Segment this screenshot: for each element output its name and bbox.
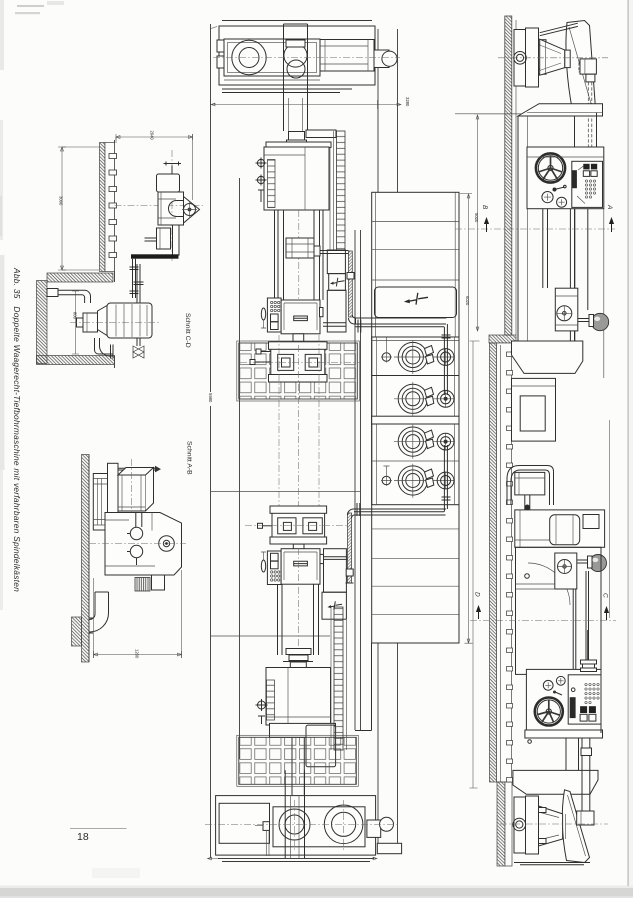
headstock1 spindle rails [543,209,575,341]
panel black buttons 2x2 [583,164,589,170]
A-B casting slot [136,513,142,527]
top foot cone [540,39,565,75]
mid clamp block [286,238,314,258]
main pulley [232,40,266,74]
headstock2 base plate [270,723,336,737]
panel dark slot [572,170,577,188]
unit1 right flange [320,308,324,317]
pendant buttons [271,571,280,581]
ladder rack top [337,131,346,250]
C-D pump motor [107,303,152,338]
column cap [286,40,305,47]
pipe1 fitting [347,273,354,280]
machine bed long bar right edge [397,29,399,853]
C-D vertical pipe stub [145,238,157,241]
fixture1 clamp left [278,354,294,370]
bottom pulley small [279,809,310,840]
clamp solid box [580,59,596,74]
A-B wall footing hatch [72,617,82,646]
chuck stack [581,660,597,664]
svg-text:3000: 3000 [59,196,64,206]
spindle clamp block [577,811,594,825]
bottom dim line [208,857,378,860]
stem lower [566,738,579,770]
bed rail extension below cabinet [355,643,372,731]
end knob [374,50,389,68]
pendant handwheel [261,560,265,572]
mid dim line 3280 [211,100,401,109]
C-D floor line [114,140,116,368]
svg-text:800: 800 [73,312,78,320]
pipe2 riser to gauge [442,445,451,512]
C-D pipe drop 2 [137,264,140,346]
cabinet lower shelf lines [372,529,459,615]
headstock1 hand cranks [256,158,267,203]
carriage1 handwheel [557,306,572,321]
headstock2 base plate [525,730,603,738]
A-B main casting [105,513,182,576]
A-B wall hatch [82,455,90,663]
svg-text:3280: 3280 [405,97,410,107]
lightning bolt lower [330,601,342,610]
fixture1 top plate [269,342,328,350]
headstock2 black buttons [580,706,587,713]
gauge row 1 [381,338,454,375]
end knob bulb [382,51,397,66]
foot centerline [498,57,608,59]
carriage 1 [555,288,578,331]
foot2 plate B [526,796,539,854]
fixture1 bottom plate [269,375,328,383]
headstock1 dial circles [542,192,553,203]
right bar lower end block [377,843,401,853]
fixture centerlines down [279,335,319,506]
top-left scan dashes [17,5,44,7]
A-B box centerline [131,459,133,517]
wall hatch lower [497,782,505,866]
foot2 plate A [514,797,526,853]
pipe1 elbow and run [349,315,447,324]
spindle centerline [298,210,300,345]
spindle stem 2 [293,544,304,549]
top support foot plate B [526,28,539,87]
pipe2 striped riser [348,513,352,583]
A-B centerline [89,543,186,545]
upper saddle block B [327,290,346,332]
A-B side box [152,575,165,590]
headstock2 dials [543,680,553,690]
mid carriage handwheel [558,560,572,574]
bottom stem bar [285,770,304,859]
housing bottom plate [224,79,320,81]
mid bed [516,547,602,674]
oil pipe loop [507,466,554,506]
machine base line [514,863,590,865]
small roller [528,740,532,744]
grid platform 2 [237,735,358,786]
A-B dim line bottom [94,651,182,658]
left edge scan smudges [0,0,4,70]
anchor bolts [507,352,513,782]
C-D pit hatch left [37,281,48,364]
A-B slide table [93,474,116,531]
panel button dots [585,180,595,198]
C-D pipe flanges [130,267,139,294]
electrical cabinet body [372,192,459,643]
bottom housing bottom line [218,859,374,862]
wall hatch middle [490,343,497,782]
clamp right flange [314,246,320,256]
A-B ribbed grill [135,578,150,592]
C-D pipe valve [133,346,144,358]
C-D motor shaft [77,318,84,327]
headstock1 top plate [266,142,331,148]
A-B drill rod with arrow [118,468,155,470]
section line B-A [455,228,615,230]
headstock 2 [266,668,331,726]
ball handle 1 [591,313,608,330]
wall hatch step [489,335,516,343]
C-D outlet elbow to floor [95,338,114,356]
foot block 1 [512,378,556,441]
pipe2 fitting [346,569,353,576]
A-B motor box [118,475,146,511]
row1 valve [382,353,391,362]
pipe1 wall flange [358,320,361,333]
mid carriage [555,553,577,589]
fixture1 cross centerline [240,362,360,364]
top foot nubs [539,40,547,45]
unit2 clamp mark [294,561,308,566]
bottom pulley housing [216,796,376,856]
C-D wall hatch [100,143,106,272]
svg-text:A: A [606,204,613,209]
fixture2 top plate [270,506,327,513]
C-D pit hatch top [47,273,113,282]
C-D black clamp bar [131,254,179,258]
C-D pointed bracket [184,197,200,224]
foot2 arm [562,790,589,863]
mid gear block [515,510,605,547]
cabinet door panel with bolt [375,287,457,318]
A-B floor line [88,455,90,663]
fixture2 cross centerline [245,525,350,527]
headstock1 left gib comb [268,160,276,208]
svg-text:C: C [602,593,609,598]
foot2 bolt circle [513,818,526,831]
spindle through pedestal [582,769,590,811]
gear cylinder [550,515,580,545]
top bracket arm [566,21,596,113]
svg-text:18: 18 [77,831,89,843]
bottom housing left pin [263,822,270,831]
machine bed long bar left edge [377,29,379,853]
C-D dim line vertical [58,147,66,270]
drill rod thin [587,209,589,310]
right edge lower bed [600,547,602,733]
fixture2 clamp right [303,518,322,534]
headstock1 top fittings [289,132,305,141]
spindle stem 1 [293,334,304,342]
headstock2 handwheel [256,699,268,724]
headstock 2 elevation [526,669,601,733]
C-D bracket circle [184,204,196,216]
C-D pipe cross fitting [134,282,144,285]
mid bed swing arc [528,563,570,605]
housing left fittings [217,40,224,52]
wall hatch upper [505,16,512,335]
C-D carriage centerline [171,150,173,262]
fixture2 lever pin [260,525,272,527]
C-D centerline [115,205,204,207]
svg-text:1200: 1200 [135,649,140,659]
pipe2 flange [357,503,360,516]
panel divider 2 [372,416,459,424]
svg-text:5980: 5980 [208,393,213,403]
section line D-C [470,620,616,622]
stem to bottom housing [292,737,304,795]
pipe1 striped riser [349,251,353,317]
headstock 1 [264,147,329,210]
dim ext line right [609,420,611,618]
drill rod dashed [588,82,592,147]
spindle lower [582,738,590,769]
unit1 clamp mark [294,316,308,321]
gauge row 2 [394,382,454,416]
C-D motor cone [98,306,108,336]
counter pulleys [284,44,307,67]
headstock2 spokes [538,700,560,722]
bottom housing centerline [205,823,400,825]
headstock1 spindle rails [275,210,324,300]
anchor rail on wall [500,345,502,782]
C-D dim line top [116,134,193,140]
C-D dim line pit [72,291,79,354]
headstock1 elevation [527,147,604,209]
C-D anchor bolts [109,154,117,258]
row4 valve [382,476,391,485]
bed top plate [518,104,603,116]
bottom knob [367,820,381,837]
pipe connection dots [444,397,448,401]
fixture1 lever pins [253,352,271,363]
grid platform 1 [237,341,359,401]
housing base rails [222,89,352,93]
pipe2 from unit2 flange [324,557,348,560]
foot2 centerline [500,823,608,825]
drive cylinder [320,40,374,72]
pipe2 end cap [346,582,354,584]
page right edge line [627,0,629,886]
gauge row 3 [394,425,454,459]
C-D body inner lines [158,192,176,225]
C-D upper block [157,174,180,192]
headstock2 panel [568,675,601,724]
long horizontal datum line [211,491,361,493]
section arrow A [609,217,614,224]
svg-text:6020: 6020 [465,296,470,306]
bottom pulley large [324,805,363,844]
headstock1 lever [527,156,604,158]
clamp stem [586,74,595,82]
column through housing [284,24,308,131]
C-D motor centerline [70,322,160,324]
C-D inlet pipe elbow [58,290,91,303]
ladder side strip [330,131,334,250]
C-D lower bar [173,225,180,255]
saddle block right of unit2 [324,549,347,593]
bed top datum [455,113,521,115]
pipe2 elbow and run [348,509,447,518]
mid rails [573,571,588,669]
C-D motor end cap [83,313,98,332]
headstock1 right extension line [603,209,605,378]
top corner tick [211,27,217,29]
svg-text:Schnitt A-B: Schnitt A-B [186,441,193,475]
pipe1 from clamp flange [320,251,349,254]
unit1 pipe stub [323,323,347,326]
fixture 1 body [271,342,325,382]
bottom housing inner left [219,803,269,843]
spindle2 centerline [297,548,299,667]
C-D inlet plug [47,289,58,297]
bottom-left scan smudge [92,868,140,878]
top foot bolt circle [514,52,527,65]
panel divider 1 [372,375,459,377]
fixture2 bottom plate [270,537,327,544]
right dim vertical upper [474,114,522,331]
plan bed right rail lines [355,230,361,730]
C-D T-handle [164,162,182,175]
headstock1 handwheel rim [536,153,565,182]
C-D lower block [157,228,171,249]
pipe1 drop to gauge [442,324,451,395]
headstock2 handwheel rim [535,698,563,726]
bottom knob bulb [380,817,394,831]
foot2 nubs [539,808,547,813]
pendant1 handwheel [261,308,265,320]
bottom housing inner frame [273,807,365,847]
bed right edge above headstock [596,113,598,147]
A-B casting circle [159,536,175,552]
page number rule [70,828,127,830]
C-D carriage body with notch [158,192,184,225]
svg-text:D: D [474,592,481,597]
headstock2 gib comb [267,680,275,720]
ball handle 2 [590,555,607,572]
C-D pipe drop 1 [133,259,136,298]
headstock2 side block [306,725,336,767]
fixture 2 body [272,506,325,544]
pulley housing top line [222,20,372,22]
panel divider 3 [372,460,459,462]
foot2 cone [539,806,563,846]
ladder2 side strip [331,607,347,750]
clamp dashed box [579,61,589,72]
spindle unit 1 box [281,300,320,334]
upper saddle block A [327,250,345,274]
riser pair [525,495,530,545]
headstock1 handwheel spokes [538,156,562,180]
mid bed plate line [516,584,556,589]
gauge row 4 [381,464,454,498]
lightning box lower [322,592,346,619]
pedestal 2 [513,770,598,794]
A-B drain elbow [90,592,109,632]
svg-text:Abb. 35 Doppelte Waagerecht-: Abb. 35 Doppelte Waagerecht-Tiefbohrmasc… [12,267,22,592]
pulley housing inner frame [224,39,320,76]
section arrow B [484,217,489,224]
A-B extension lines [94,570,182,658]
section arrow C [604,606,609,613]
gauge panel frame [372,337,459,505]
top pulley housing [219,26,375,85]
cabinet shelf lines [372,192,459,337]
housing centerlines [213,57,400,59]
lightning symbol [408,293,428,305]
fixture2 clamp left [278,518,296,534]
pipe joint dot [525,505,531,511]
oil tank [515,472,545,495]
page bottom shadow band [0,886,633,889]
A-B elbow flange [89,618,93,633]
section arrow D [476,605,481,612]
plan left boundary dim line [210,24,212,858]
headstock1 control panel [572,161,603,207]
C-D floor flange [111,345,114,359]
control pendant 2 [267,551,281,585]
rails 2 [278,584,319,655]
unit2 right flange [320,554,324,563]
lower datum line [211,635,331,637]
svg-text:Schnitt C-D: Schnitt C-D [184,313,191,348]
pedestal 1 [512,341,583,373]
spindle unit 2 box [281,549,320,585]
right dim vertical cabinet [460,194,473,644]
bed body upper [518,116,575,341]
A-B vertical plate [108,463,119,514]
svg-text:2040: 2040 [150,131,155,141]
right dim vertical long [470,341,480,788]
A-B casting inner lines [105,513,155,567]
plan bed edge line [239,178,241,759]
top tie rod [540,23,578,36]
top support foot plate A [514,30,526,87]
svg-text:B: B [481,205,488,210]
spindle nose 2 [286,649,311,655]
fixture1 clamp right [305,354,321,370]
C-D pit hatch bottom [37,356,115,365]
ladder rack bottom [334,607,343,750]
headstock2 dots [585,683,599,703]
svg-text:5000: 5000 [474,213,479,223]
upper lightning bolt [333,278,345,287]
upper lightning box [329,274,346,291]
C-D extension lines [62,134,193,270]
control pendant 1 [267,298,281,332]
top foot tip ring [565,50,570,68]
